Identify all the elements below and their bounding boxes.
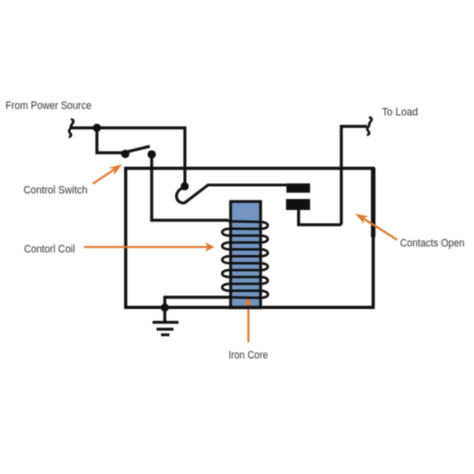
contact: lower [286, 199, 310, 210]
wire: switch to coil top [152, 154, 229, 220]
node: armature pivot [181, 182, 189, 190]
control switch right contact [148, 150, 156, 158]
node: ground junction [161, 304, 169, 312]
arrow: contorl coil pointer [84, 242, 215, 252]
wire: lower contact to load line [299, 210, 342, 225]
control switch left contact [121, 150, 129, 158]
svg-text:To Load: To Load [382, 106, 418, 118]
power source break symbol [69, 120, 74, 137]
svg-text:From Power Source: From Power Source [6, 100, 92, 112]
wire: relay box right edge thick segment [371, 168, 376, 237]
ground symbol [153, 322, 179, 335]
node: power junction [93, 124, 101, 132]
wire: power feed top [71, 128, 185, 184]
wire: load line [341, 126, 367, 224]
arrow: contacts open pointer [355, 214, 397, 240]
arrow: control switch pointer [93, 164, 123, 184]
arrow: iron core pointer [244, 297, 252, 342]
svg-text:Control Switch: Control Switch [24, 185, 88, 197]
coil winding [222, 221, 268, 298]
control switch blade [127, 146, 150, 152]
coil core (iron core) [231, 202, 261, 308]
svg-text:Contorl Coil: Contorl Coil [24, 243, 75, 255]
svg-text:Iron Core: Iron Core [229, 350, 269, 362]
relay enclosure box [126, 168, 374, 307]
svg-text:Contacts Open: Contacts Open [400, 237, 465, 249]
load break symbol [367, 118, 372, 135]
contact: upper (normally open) [286, 183, 310, 192]
relay armature [176, 185, 287, 203]
wire: junction to control switch [97, 128, 123, 153]
wire: coil bottom to ground [165, 297, 231, 322]
